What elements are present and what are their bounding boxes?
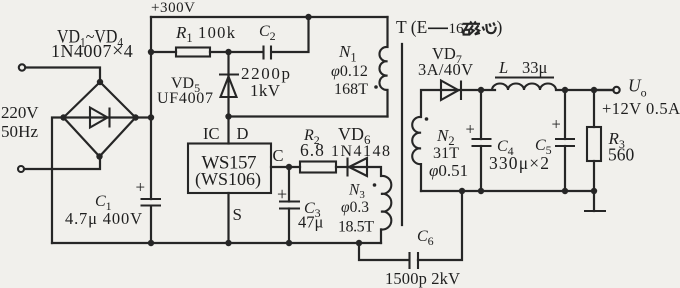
node VD7 / C4 [478, 87, 484, 93]
wire bridge DC- down left side [52, 118, 64, 244]
svg-text:D: D [237, 124, 249, 143]
svg-text:IC: IC [203, 124, 220, 143]
wire lower AC input [25, 157, 101, 170]
svg-text:+: + [277, 184, 287, 204]
transformer winding N1 [379, 17, 387, 117]
svg-text:3A/40V: 3A/40V [418, 60, 473, 79]
svg-text:16: 16 [449, 21, 465, 37]
svg-text:S: S [233, 205, 242, 224]
node DC+ tap [148, 114, 154, 120]
svg-text:6.8: 6.8 [300, 140, 325, 160]
wire left main vertical (bridge DC+ to rails) [150, 17, 152, 243]
terminal AC input lower [18, 166, 24, 172]
svg-text:+: + [552, 115, 561, 134]
wire bottom rail [52, 242, 381, 244]
svg-text:47μ: 47μ [298, 213, 324, 232]
capacitor C3 [277, 167, 300, 243]
wire upper AC input [26, 68, 101, 83]
node C3 bottom [286, 240, 292, 246]
node C6 branch [356, 240, 362, 246]
svg-text:1N4148: 1N4148 [331, 143, 390, 160]
wire N2 top to VD7 [421, 90, 441, 117]
svg-text:33μ: 33μ [522, 58, 548, 77]
node R3 top [591, 87, 597, 93]
diode VD7 [441, 81, 495, 101]
node bridge right vertex [132, 114, 138, 120]
node C4 bottom [478, 188, 484, 194]
wire secondary bottom rail [421, 190, 594, 192]
node N3 polarity dot [373, 183, 377, 187]
svg-text:50Hz: 50Hz [1, 122, 38, 141]
pin C wire [271, 166, 300, 168]
inductor L [492, 78, 614, 91]
diode VD6 [336, 158, 379, 177]
transformer winding N2 [412, 117, 421, 191]
svg-text:31T: 31T [433, 145, 459, 162]
node N1 polarity dot [374, 85, 378, 89]
resistor R2 [300, 162, 336, 173]
svg-text:168T: 168T [334, 81, 368, 98]
svg-text:T (E: T (E [396, 17, 427, 37]
glyph xin (heart) [483, 23, 496, 34]
IC WS157 box [188, 144, 271, 194]
node C pin / C3 [286, 164, 292, 170]
terminal output [613, 87, 619, 93]
svg-text:+12V 0.5A: +12V 0.5A [602, 99, 680, 118]
svg-text:φ0.51: φ0.51 [429, 161, 468, 180]
svg-text:+: + [466, 120, 475, 139]
svg-text:560: 560 [608, 145, 635, 165]
capacitor C2 [229, 17, 309, 60]
svg-text:18.5T: 18.5T [338, 219, 374, 236]
wire output [594, 89, 613, 91]
svg-text:UF4007: UF4007 [157, 90, 213, 107]
bridge inner diode [64, 108, 136, 128]
svg-text:1500p 2kV: 1500p 2kV [385, 269, 460, 288]
wire bridge DC+ to main vertical [136, 116, 152, 118]
node C6 top [459, 188, 465, 194]
svg-text:L: L [498, 58, 508, 77]
svg-text:φ0.12: φ0.12 [331, 63, 368, 80]
node N2 polarity dot [425, 117, 429, 121]
svg-text:+: + [136, 178, 146, 197]
capacitor C5 [552, 90, 576, 191]
node C1 bottom [148, 240, 154, 246]
node R1 right / clamp [225, 49, 231, 55]
node R3 bottom [591, 188, 597, 194]
svg-text:4.7μ 400V: 4.7μ 400V [65, 209, 142, 228]
wire drain D to N1 [229, 115, 388, 117]
pin D wire [227, 117, 229, 144]
transformer core [401, 44, 403, 225]
node S pin bottom [225, 240, 231, 246]
svg-text:220V: 220V [1, 103, 39, 122]
resistor R3 [587, 90, 601, 191]
node VD5 / D wire [225, 113, 231, 119]
svg-text:+300V: +300V [151, 0, 195, 16]
svg-text:φ0.3: φ0.3 [341, 199, 369, 216]
svg-text:): ) [497, 17, 503, 37]
node L / C5 [562, 87, 568, 93]
glyph ci (magnetic) [462, 22, 480, 35]
resistor R1 [151, 48, 229, 57]
node C5 bottom [562, 188, 568, 194]
pin S wire [227, 193, 229, 243]
bridge rectifier VD1-VD4 diamond [64, 82, 136, 157]
svg-text:1N4007×4: 1N4007×4 [51, 40, 133, 62]
capacitor C6 [359, 191, 462, 269]
capacitor C4 [466, 90, 492, 191]
svg-text:100k: 100k [198, 23, 236, 42]
label T (E-16 cixin) [396, 17, 503, 37]
ground [584, 191, 606, 211]
node bridge bottom vertex [96, 153, 102, 159]
node bridge top vertex [97, 79, 103, 85]
node R1 left [148, 49, 154, 55]
terminal AC input upper [19, 64, 25, 70]
svg-text:(WS106): (WS106) [195, 169, 261, 190]
diode VD5 clamp [219, 52, 239, 117]
transformer winding N3 [381, 167, 391, 243]
wire +300V top rail [151, 16, 388, 18]
svg-text:C: C [273, 146, 284, 165]
svg-text:330μ×2: 330μ×2 [489, 153, 549, 173]
node junction C2 top rail [305, 14, 311, 20]
capacitor C1 [136, 178, 162, 206]
node bridge left vertex [60, 114, 66, 120]
svg-text:1kV: 1kV [250, 81, 281, 100]
